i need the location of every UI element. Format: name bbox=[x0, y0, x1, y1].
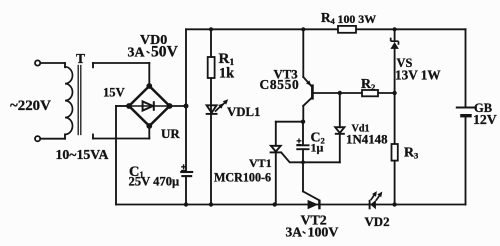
svg-text:100V: 100V bbox=[308, 226, 339, 241]
svg-text:~220V: ~220V bbox=[10, 98, 51, 114]
svg-text:3A: 3A bbox=[128, 46, 145, 61]
svg-text:1N4148: 1N4148 bbox=[346, 133, 388, 147]
svg-text:3A: 3A bbox=[286, 225, 303, 240]
svg-text:T: T bbox=[76, 51, 85, 66]
svg-text:100 3W: 100 3W bbox=[338, 12, 377, 26]
svg-text:VDL1: VDL1 bbox=[227, 105, 260, 119]
svg-text:VT1: VT1 bbox=[249, 156, 272, 170]
svg-text:10~15VA: 10~15VA bbox=[56, 147, 109, 162]
svg-text:25V 470μ: 25V 470μ bbox=[129, 175, 180, 189]
svg-text:50V: 50V bbox=[151, 44, 179, 61]
svg-text:MCR100-6: MCR100-6 bbox=[214, 171, 271, 185]
svg-text:1μ: 1μ bbox=[311, 141, 324, 155]
svg-text:1k: 1k bbox=[219, 66, 234, 82]
svg-text:15V: 15V bbox=[103, 86, 125, 100]
svg-text:12V: 12V bbox=[473, 112, 497, 127]
svg-text:UR: UR bbox=[161, 126, 180, 141]
svg-text:13V 1W: 13V 1W bbox=[395, 68, 441, 83]
svg-text:VD2: VD2 bbox=[365, 215, 390, 229]
svg-text:C8550: C8550 bbox=[260, 77, 300, 92]
